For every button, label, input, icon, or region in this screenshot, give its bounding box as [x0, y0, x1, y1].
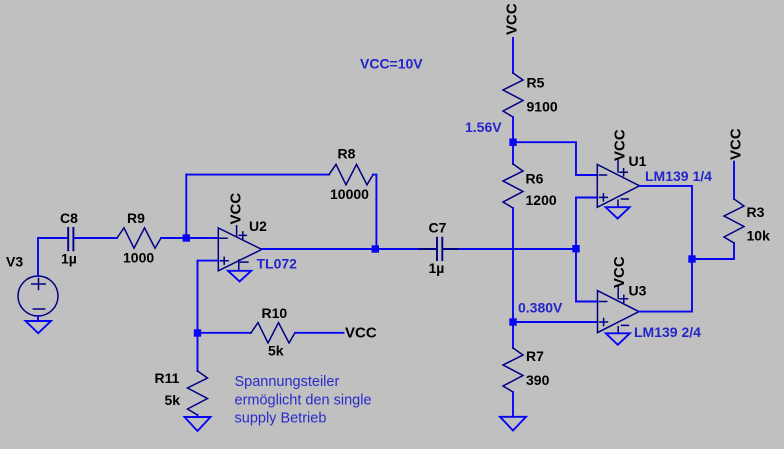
wire feedback riser	[185, 175, 187, 238]
capacitor C8	[68, 228, 73, 250]
node junction main comparator node	[572, 245, 579, 252]
wire R9 to U2 inverting input	[161, 237, 218, 239]
svg-text:10000: 10000	[330, 186, 369, 202]
node junction at U2 inverting input	[183, 234, 190, 241]
svg-text:VCC: VCC	[612, 129, 629, 161]
svg-text:1µ: 1µ	[429, 260, 445, 276]
wire output node to R3	[692, 243, 734, 259]
svg-text:1.56V: 1.56V	[465, 119, 502, 135]
svg-text:U2: U2	[249, 218, 267, 234]
svg-text:R7: R7	[526, 348, 544, 364]
wire R8 right to output node	[373, 175, 376, 249]
svg-text:5k: 5k	[165, 392, 181, 408]
resistor R8	[329, 164, 373, 184]
resistor R10	[251, 323, 295, 343]
comparator U1	[597, 160, 639, 208]
svg-text:U3: U3	[629, 283, 647, 299]
svg-text:1µ: 1µ	[61, 251, 77, 267]
wire U2 output	[262, 248, 376, 250]
ground under U3	[606, 333, 630, 345]
wire R11 to ground	[197, 415, 199, 417]
svg-text:VCC: VCC	[504, 3, 521, 35]
svg-text:VCC: VCC	[611, 256, 628, 288]
resistor R5	[503, 73, 523, 117]
svg-text:R5: R5	[527, 75, 545, 91]
wire R7 to ground	[512, 392, 514, 417]
resistor R6	[503, 164, 523, 208]
voltage source V3	[18, 276, 58, 316]
ground under U2	[228, 271, 251, 282]
wire output node to C7	[375, 248, 419, 250]
svg-text:U1: U1	[629, 153, 647, 169]
svg-text:390: 390	[526, 372, 550, 388]
node junction R10 R11	[194, 329, 201, 336]
svg-text:0.380V: 0.380V	[518, 299, 563, 315]
svg-text:VCC: VCC	[228, 193, 245, 225]
wire R6 down rail crossing	[512, 208, 514, 322]
wire 1.56V node to R6	[512, 142, 514, 164]
svg-text:V3: V3	[6, 254, 23, 270]
ground under R11	[185, 417, 211, 431]
node junction 1.56V	[509, 139, 516, 146]
wire R5 to node 1.56V	[512, 117, 514, 142]
comparator U3	[598, 286, 639, 333]
wire U2 noninverting input	[198, 261, 219, 333]
svg-text:VCC: VCC	[345, 325, 377, 342]
wire 0.380V to R7	[512, 322, 514, 348]
svg-text:1200: 1200	[526, 192, 557, 208]
svg-text:VCC=10V: VCC=10V	[360, 56, 423, 72]
svg-text:9100: 9100	[527, 99, 558, 115]
resistor R11	[188, 371, 208, 415]
wire junction to R11	[197, 333, 199, 371]
svg-text:TL072: TL072	[257, 256, 298, 272]
svg-text:VCC: VCC	[728, 128, 745, 160]
svg-text:LM139 2/4: LM139 2/4	[634, 324, 701, 340]
wire C8 to R9	[75, 237, 118, 239]
node junction output	[688, 255, 695, 262]
svg-text:C8: C8	[60, 210, 78, 226]
svg-text:ermöglicht den single: ermöglicht den single	[235, 393, 372, 409]
svg-text:Spannungsteiler: Spannungsteiler	[235, 374, 340, 390]
wire U3 output	[639, 259, 692, 312]
svg-text:R11: R11	[155, 370, 180, 386]
wire V3 bottom stub	[37, 316, 39, 321]
svg-text:supply Betrieb: supply Betrieb	[235, 411, 327, 427]
ground under R7	[500, 417, 526, 431]
wire VCC to R3	[733, 162, 735, 199]
wire node to U3 inverting input	[576, 249, 598, 302]
svg-text:R10: R10	[262, 305, 288, 321]
svg-text:R8: R8	[338, 146, 356, 162]
wire R10 to VCC	[295, 332, 344, 334]
node junction U2 output R8	[372, 245, 379, 252]
wire 1.56V to U1 inverting input	[513, 142, 597, 175]
svg-text:R9: R9	[127, 210, 145, 226]
wire main line V3 to C8	[38, 237, 67, 239]
capacitor C7	[419, 238, 460, 260]
node junction 0.380V	[509, 318, 516, 325]
ground under U1	[606, 207, 630, 218]
wire C7 to comparator node	[460, 248, 576, 250]
wire U1 output	[640, 186, 693, 259]
resistor R3	[724, 199, 744, 243]
svg-text:10k: 10k	[747, 228, 771, 244]
op-amp U2	[218, 226, 261, 271]
wire node to U1 noninverting input	[576, 198, 597, 249]
wire VCC to R5	[512, 38, 514, 73]
svg-text:C7: C7	[429, 220, 447, 236]
svg-text:1000: 1000	[123, 250, 154, 266]
resistor R9	[117, 228, 161, 248]
wire 0.380V to U3 noninverting input	[513, 321, 598, 323]
svg-text:R3: R3	[747, 204, 765, 220]
svg-text:R6: R6	[526, 171, 544, 187]
svg-text:5k: 5k	[268, 343, 284, 359]
resistor R7	[503, 348, 523, 392]
ground under V3	[26, 321, 52, 333]
svg-text:LM139 1/4: LM139 1/4	[645, 168, 712, 184]
wire V3 top to main line	[37, 238, 39, 276]
wire feedback top to R8	[186, 174, 329, 176]
wire junction to R10	[198, 332, 252, 334]
